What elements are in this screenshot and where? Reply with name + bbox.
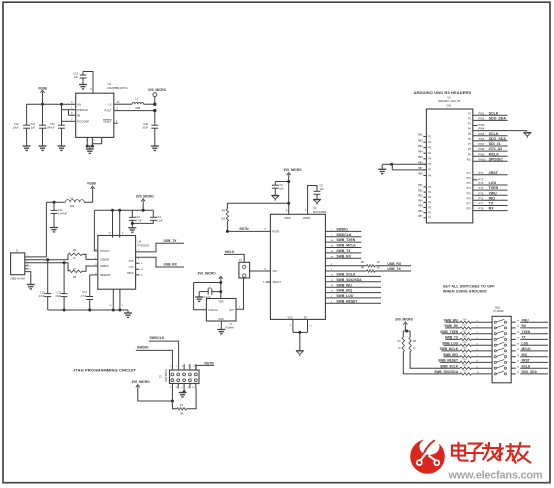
svg-text:3: 3 xyxy=(176,366,178,368)
svg-text:RTS: RTS xyxy=(129,260,134,263)
svg-text:PT2: PT2 xyxy=(479,177,484,181)
svg-text:5: 5 xyxy=(182,366,184,368)
svg-text:PT5: PT5 xyxy=(467,193,472,195)
svg-text:WHEN USING ARDUINO: WHEN USING ARDUINO xyxy=(443,289,487,293)
svg-text:PB1: PB1 xyxy=(418,184,423,187)
svg-text:PB1: PB1 xyxy=(418,134,423,137)
svg-text:C14: C14 xyxy=(14,123,19,126)
svg-text:C11: C11 xyxy=(57,291,62,294)
svg-text:P5: P5 xyxy=(428,207,432,209)
svg-text:4.7uF: 4.7uF xyxy=(136,220,143,223)
svg-text:P5: P5 xyxy=(468,134,472,136)
svg-text:3V3OUT: 3V3OUT xyxy=(100,250,110,253)
svg-text:4: 4 xyxy=(122,233,124,235)
svg-text:RSTN: RSTN xyxy=(205,361,215,365)
svg-text:PIN7: PIN7 xyxy=(479,142,485,146)
svg-text:#WU: #WU xyxy=(522,318,530,322)
svg-text:XIN: XIN xyxy=(272,270,276,273)
svg-text:16: 16 xyxy=(517,343,520,345)
svg-text:6: 6 xyxy=(182,387,184,389)
svg-text:4: 4 xyxy=(30,266,32,268)
svg-text:220: 220 xyxy=(463,371,467,373)
svg-text:76.8kOut: 76.8kOut xyxy=(208,309,218,312)
svg-text:PB3: PB3 xyxy=(418,195,423,198)
svg-text:PB3: PB3 xyxy=(418,145,423,148)
svg-text:0.047uF: 0.047uF xyxy=(45,127,55,130)
svg-text:SPIS/DC: SPIS/DC xyxy=(489,157,504,161)
svg-text:SWB_TXEN: SWB_TXEN xyxy=(440,330,458,334)
svg-text:10uF: 10uF xyxy=(13,127,19,130)
svg-text:2: 2 xyxy=(117,108,119,111)
svg-text:2: 2 xyxy=(218,325,220,327)
svg-text:8: 8 xyxy=(187,387,189,389)
svg-text:19: 19 xyxy=(517,326,520,328)
svg-text:SET ALL SWITCHES TO OFF: SET ALL SWITCHES TO OFF xyxy=(443,284,495,288)
svg-text:P1: P1 xyxy=(468,113,472,115)
svg-text:6R8: 6R8 xyxy=(136,107,141,110)
svg-text:SDI_#1: SDI_#1 xyxy=(489,142,501,146)
svg-text:PT5: PT5 xyxy=(479,191,484,195)
svg-text:GND: GND xyxy=(218,318,224,321)
svg-text:P2: P2 xyxy=(428,142,432,144)
svg-text:PIN10: PIN10 xyxy=(479,157,487,161)
svg-text:U5: U5 xyxy=(447,96,451,99)
svg-text:RSTN: RSTN xyxy=(240,227,250,231)
svg-text:J2: J2 xyxy=(159,376,162,379)
svg-text:3: 3 xyxy=(239,307,241,309)
svg-text:SDO_SDA: SDO_SDA xyxy=(489,137,507,141)
svg-text:XBOUT: XBOUT xyxy=(272,281,281,284)
svg-text:45: 45 xyxy=(377,261,380,264)
svg-text:SCLK: SCLK xyxy=(489,132,499,136)
svg-text:SWB_SDO/SDA: SWB_SDO/SDA xyxy=(336,278,362,282)
svg-text:SWB_IRQ: SWB_IRQ xyxy=(443,353,458,357)
svg-text:45: 45 xyxy=(377,266,380,269)
svg-text:PT1: PT1 xyxy=(479,171,484,175)
svg-text:1uF: 1uF xyxy=(31,127,36,130)
svg-text:PB2: PB2 xyxy=(418,139,423,142)
svg-text:PI-10SSF: PI-10SSF xyxy=(494,310,505,313)
svg-text:SWB_TX: SWB_TX xyxy=(336,249,351,253)
svg-text:VSS: VSS xyxy=(288,316,293,319)
svg-text:6: 6 xyxy=(141,263,143,265)
svg-text:PIN4: PIN4 xyxy=(479,127,485,131)
svg-text:P2: P2 xyxy=(468,119,472,121)
svg-text:10k: 10k xyxy=(179,412,184,415)
svg-text:IRQ: IRQ xyxy=(489,196,496,200)
svg-text:27: 27 xyxy=(73,257,76,260)
svg-text:PB5: PB5 xyxy=(418,156,423,159)
svg-text:USBDP: USBDP xyxy=(100,265,109,268)
svg-text:SWDCLK: SWDCLK xyxy=(150,336,165,340)
svg-text:C17: C17 xyxy=(82,291,87,294)
svg-text:P6: P6 xyxy=(428,213,432,215)
svg-text:47pF: 47pF xyxy=(39,295,45,298)
svg-text:PIN5: PIN5 xyxy=(479,132,485,136)
svg-text:PT8: PT8 xyxy=(479,207,484,211)
svg-text:SWB_WU: SWB_WU xyxy=(336,283,352,287)
svg-text:16: 16 xyxy=(108,233,111,235)
svg-text:9: 9 xyxy=(290,325,292,327)
svg-text:P7: P7 xyxy=(428,170,432,172)
svg-text:P3: P3 xyxy=(468,124,472,126)
svg-text:1uF: 1uF xyxy=(320,188,325,191)
svg-text:8: 8 xyxy=(141,275,143,277)
svg-text:1k: 1k xyxy=(398,348,401,350)
svg-text:RSTN: RSTN xyxy=(272,231,279,234)
svg-text:USB_TX: USB_TX xyxy=(387,267,401,271)
svg-text:OUT: OUT xyxy=(229,309,235,312)
svg-text:5: 5 xyxy=(86,140,88,142)
svg-text:1: 1 xyxy=(138,250,140,252)
svg-text:10uF: 10uF xyxy=(142,127,148,130)
svg-text:76.8kHz: 76.8kHz xyxy=(225,327,235,330)
svg-text:J1: J1 xyxy=(16,249,19,252)
svg-text:C10: C10 xyxy=(40,291,45,294)
svg-text:USB_RX: USB_RX xyxy=(164,263,178,267)
svg-text:PT3: PT3 xyxy=(467,183,472,185)
svg-text:PT8: PT8 xyxy=(467,209,472,211)
svg-text:7: 7 xyxy=(263,281,265,284)
svg-text:SWD PROG: SWD PROG xyxy=(166,369,168,382)
svg-text:PIN8: PIN8 xyxy=(479,147,485,151)
svg-text:PT4: PT4 xyxy=(479,186,484,190)
svg-text:PT6: PT6 xyxy=(467,198,472,200)
svg-text:1uF: 1uF xyxy=(279,187,284,190)
svg-text:#WU: #WU xyxy=(489,191,497,195)
svg-text:220: 220 xyxy=(463,336,467,338)
svg-text:SWB_RESET: SWB_RESET xyxy=(336,299,358,303)
svg-text:CN1: CN1 xyxy=(446,104,452,107)
svg-text:3V0_MICRO: 3V0_MICRO xyxy=(284,168,303,172)
svg-text:PT7: PT7 xyxy=(479,202,484,206)
svg-text:U1: U1 xyxy=(313,206,317,210)
svg-text:17: 17 xyxy=(309,326,312,328)
svg-text:R1: R1 xyxy=(180,404,184,407)
svg-text:220: 220 xyxy=(463,359,467,361)
svg-text:R5: R5 xyxy=(73,276,77,279)
svg-text:R6: R6 xyxy=(73,249,77,252)
svg-text:P2: P2 xyxy=(428,192,432,194)
svg-text:R3: R3 xyxy=(413,341,417,343)
svg-text:18: 18 xyxy=(517,332,520,334)
svg-text:SWB_LOU: SWB_LOU xyxy=(442,341,459,345)
svg-text:VDD: VDD xyxy=(218,301,223,304)
svg-text:11: 11 xyxy=(141,269,144,271)
svg-text:220: 220 xyxy=(463,365,467,367)
svg-text:PIN1: PIN1 xyxy=(479,111,485,115)
svg-text:#RST: #RST xyxy=(489,171,499,175)
svg-text:CBUS: CBUS xyxy=(127,272,134,275)
svg-text:SWB_LOU: SWB_LOU xyxy=(336,294,354,298)
svg-text:4: 4 xyxy=(116,120,118,123)
svg-text:J3: J3 xyxy=(239,259,242,262)
svg-text:www.elecfans.com: www.elecfans.com xyxy=(448,469,543,481)
svg-text:220: 220 xyxy=(463,342,467,344)
svg-text:PB7: PB7 xyxy=(418,215,423,218)
svg-text:P3: P3 xyxy=(428,197,432,199)
svg-text:2: 2 xyxy=(170,387,172,389)
svg-text:P4: P4 xyxy=(428,153,432,155)
svg-text:5: 5 xyxy=(122,305,124,307)
svg-text:6: 6 xyxy=(90,88,92,91)
svg-text:PT7: PT7 xyxy=(467,204,472,206)
svg-text:14: 14 xyxy=(517,355,520,357)
svg-text:EP: EP xyxy=(304,316,308,319)
svg-text:C20: C20 xyxy=(136,216,141,219)
svg-text:3V0_MICRO: 3V0_MICRO xyxy=(198,272,217,276)
svg-text:0.047uF: 0.047uF xyxy=(58,213,68,216)
svg-text:Y1: Y1 xyxy=(229,323,233,326)
svg-text:17: 17 xyxy=(517,338,520,340)
svg-text:LOU: LOU xyxy=(522,341,529,345)
svg-text:PT2: PT2 xyxy=(467,178,472,180)
svg-text:U4: U4 xyxy=(138,240,142,244)
svg-text:PT4: PT4 xyxy=(467,188,472,190)
svg-text:4: 4 xyxy=(176,387,178,389)
svg-text:SWB_SCLK: SWB_SCLK xyxy=(336,273,356,277)
svg-text:PT6: PT6 xyxy=(479,196,484,200)
svg-text:C16: C16 xyxy=(50,123,55,126)
svg-text:P4: P4 xyxy=(468,129,472,131)
svg-text:VDDA: VDDA xyxy=(284,217,291,220)
svg-text:P4: P4 xyxy=(428,202,432,204)
svg-text:R8: R8 xyxy=(361,261,365,264)
svg-text:SDO_SDA: SDO_SDA xyxy=(489,117,507,121)
svg-text:C21: C21 xyxy=(157,216,162,219)
svg-text:P9: P9 xyxy=(468,154,472,156)
svg-text:SWB_IRQ: SWB_IRQ xyxy=(336,289,352,293)
svg-text:#CS_A2: #CS_A2 xyxy=(489,147,503,151)
svg-text:L2: L2 xyxy=(136,97,139,100)
svg-text:SWDIO: SWDIO xyxy=(336,228,348,232)
svg-text:SWDCLK: SWDCLK xyxy=(336,233,351,237)
svg-text:C13: C13 xyxy=(73,73,78,76)
svg-text:R4: R4 xyxy=(222,210,226,213)
svg-text:USB_RX: USB_RX xyxy=(387,262,401,266)
svg-text:C15: C15 xyxy=(30,123,35,126)
svg-text:27: 27 xyxy=(73,268,76,271)
svg-text:U3: U3 xyxy=(108,82,112,86)
svg-text:3V0_MICRO: 3V0_MICRO xyxy=(132,380,151,384)
svg-text:SWB_TX: SWB_TX xyxy=(445,336,459,340)
svg-text:9: 9 xyxy=(193,366,195,368)
svg-text:PIN6: PIN6 xyxy=(479,137,485,141)
svg-text:C18: C18 xyxy=(143,123,148,126)
svg-text:VIN: VIN xyxy=(77,103,81,106)
svg-text:PT1: PT1 xyxy=(467,173,472,175)
svg-text:MCLK: MCLK xyxy=(489,152,500,156)
svg-text:PB4: PB4 xyxy=(418,200,423,203)
svg-text:RX: RX xyxy=(489,207,495,211)
svg-text:POUT: POUT xyxy=(105,110,112,113)
svg-text:220: 220 xyxy=(463,319,467,321)
svg-text:P7: P7 xyxy=(428,218,432,220)
svg-text:VUSB: VUSB xyxy=(38,87,48,91)
svg-text:PB8: PB8 xyxy=(418,173,423,176)
svg-text:3V0_MICRO: 3V0_MICRO xyxy=(136,194,155,198)
svg-text:3V0_MICRO: 3V0_MICRO xyxy=(395,318,414,322)
svg-text:11: 11 xyxy=(517,372,520,374)
svg-text:TXEN: TXEN xyxy=(522,330,531,334)
svg-text:SHDN/LO: SHDN/LO xyxy=(77,109,88,112)
svg-text:2: 2 xyxy=(138,259,140,261)
svg-text:P7: P7 xyxy=(468,144,472,146)
svg-text:5: 5 xyxy=(30,269,32,271)
svg-text:6: 6 xyxy=(265,228,267,231)
svg-text:7: 7 xyxy=(187,366,189,368)
svg-text:SWB_RESET: SWB_RESET xyxy=(438,359,458,363)
svg-text:#RST: #RST xyxy=(522,359,530,363)
svg-text:4.7uF: 4.7uF xyxy=(81,295,88,298)
svg-text:VUSB: VUSB xyxy=(87,182,97,186)
svg-text:PB6: PB6 xyxy=(418,210,423,213)
svg-text:RESET: RESET xyxy=(103,120,112,123)
svg-text:15: 15 xyxy=(517,349,520,351)
svg-text:220: 220 xyxy=(463,330,467,332)
svg-text:10: 10 xyxy=(192,387,195,389)
svg-text:P6: P6 xyxy=(428,164,432,166)
svg-text:P1: P1 xyxy=(428,136,432,138)
svg-text:PB4: PB4 xyxy=(418,150,423,153)
svg-text:P8: P8 xyxy=(468,149,472,151)
svg-text:VDDB: VDDB xyxy=(303,217,310,220)
svg-text:SWB_RX: SWB_RX xyxy=(444,324,459,328)
svg-text:13: 13 xyxy=(517,361,520,363)
svg-text:C6: C6 xyxy=(208,287,212,290)
svg-text:ARDUINO UNO R3 HEADERS: ARDUINO UNO R3 HEADERS xyxy=(414,90,472,95)
svg-text:47pF: 47pF xyxy=(55,295,61,298)
svg-text:SWB_MCLK: SWB_MCLK xyxy=(440,347,459,351)
svg-text:SWB_RX: SWB_RX xyxy=(336,254,351,258)
svg-text:JTAG PROGRAMMING CIRCUIT: JTAG PROGRAMMING CIRCUIT xyxy=(73,368,136,373)
svg-text:0.1uF: 0.1uF xyxy=(157,220,164,223)
svg-text:9: 9 xyxy=(93,140,95,142)
svg-text:ARDUINO_UNO_R3: ARDUINO_UNO_R3 xyxy=(438,100,461,103)
svg-text:P3: P3 xyxy=(428,147,432,149)
svg-text:LX: LX xyxy=(108,103,111,106)
svg-text:SWB_MCLK: SWB_MCLK xyxy=(336,244,356,248)
svg-text:PIN3: PIN3 xyxy=(479,123,485,127)
svg-text:12: 12 xyxy=(517,366,520,368)
svg-text:SCLK: SCLK xyxy=(489,111,499,115)
svg-text:1uF: 1uF xyxy=(74,76,79,79)
svg-text:PIN2: PIN2 xyxy=(479,117,485,121)
svg-text:1: 1 xyxy=(170,366,172,368)
svg-text:PB5: PB5 xyxy=(418,205,423,208)
svg-text:220: 220 xyxy=(463,325,467,327)
svg-text:USB2-AA-SM: USB2-AA-SM xyxy=(10,278,25,281)
svg-text:FT230XS: FT230XS xyxy=(138,244,150,248)
svg-text:MAX32660: MAX32660 xyxy=(313,210,327,214)
svg-text:SCLK: SCLK xyxy=(522,364,531,368)
svg-text:600: 600 xyxy=(70,205,75,208)
svg-text:SDO_SDA: SDO_SDA xyxy=(522,370,538,374)
svg-text:220: 220 xyxy=(463,353,467,355)
svg-text:LOU: LOU xyxy=(489,181,497,185)
svg-text:MAX8880-RXTH: MAX8880-RXTH xyxy=(108,86,128,90)
svg-text:10k: 10k xyxy=(221,218,226,221)
svg-text:5: 5 xyxy=(265,268,267,271)
svg-text:220: 220 xyxy=(463,348,467,350)
svg-text:RESETB: RESETB xyxy=(100,274,110,277)
svg-text:P1: P1 xyxy=(428,187,432,189)
svg-text:TX: TX xyxy=(489,202,494,206)
svg-text:MCLK: MCLK xyxy=(522,347,532,351)
svg-text:R9: R9 xyxy=(361,266,365,269)
svg-text:10: 10 xyxy=(117,101,120,104)
svg-text:TXEN: TXEN xyxy=(489,186,499,190)
svg-text:7: 7 xyxy=(305,210,307,213)
svg-text:SW1: SW1 xyxy=(495,306,501,309)
svg-text:P5: P5 xyxy=(428,159,432,161)
svg-text:13: 13 xyxy=(109,305,112,307)
svg-text:P10: P10 xyxy=(467,159,472,161)
svg-text:PT3: PT3 xyxy=(479,181,484,185)
svg-text:P6: P6 xyxy=(468,139,472,141)
svg-text:SWB_TXEN: SWB_TXEN xyxy=(336,238,355,242)
svg-text:USBDM: USBDM xyxy=(100,259,109,262)
svg-text:5B: 5B xyxy=(77,114,80,117)
svg-text:PB2: PB2 xyxy=(418,189,423,192)
svg-text:P8: P8 xyxy=(428,175,432,177)
svg-text:SWB_WU: SWB_WU xyxy=(443,318,458,322)
svg-text:MCLK: MCLK xyxy=(225,250,235,254)
svg-text:USB_TX: USB_TX xyxy=(164,239,178,243)
svg-text:1k: 1k xyxy=(413,348,416,350)
svg-text:R2: R2 xyxy=(398,341,402,343)
svg-text:4: 4 xyxy=(286,210,288,213)
svg-text:3V0_MICRO: 3V0_MICRO xyxy=(148,88,167,92)
svg-text:P.C/COMP: P.C/COMP xyxy=(77,120,89,123)
svg-text:PIN9: PIN9 xyxy=(479,152,485,156)
svg-text:C19: C19 xyxy=(58,209,63,212)
svg-text:CTS: CTS xyxy=(129,266,134,269)
svg-text:20: 20 xyxy=(517,320,520,322)
svg-text:IRQ: IRQ xyxy=(522,353,528,357)
svg-text:SWDIO: SWDIO xyxy=(137,346,149,350)
